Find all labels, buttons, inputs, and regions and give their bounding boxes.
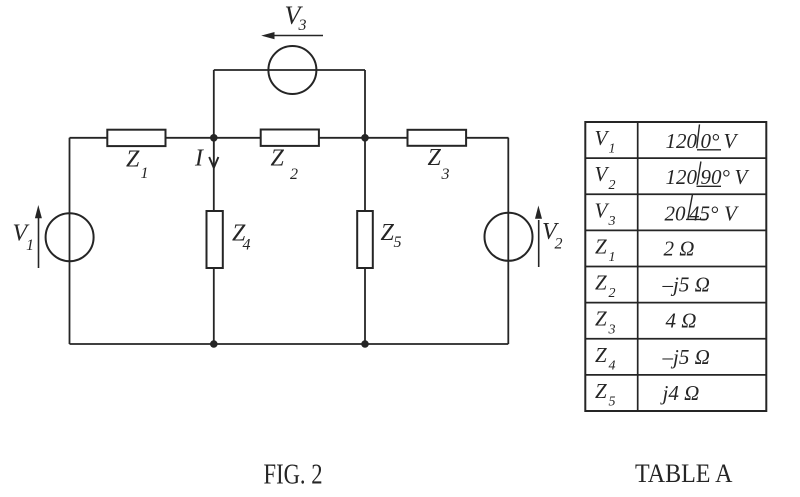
wire: Z4 down to bottom bus xyxy=(213,268,215,344)
node B junction dot xyxy=(361,134,369,142)
voltage source V3 xyxy=(268,46,316,94)
voltage source V1 xyxy=(46,213,94,261)
svg-text:5: 5 xyxy=(394,234,402,251)
label V1 xyxy=(13,220,35,254)
arrow: current I xyxy=(209,141,218,168)
svg-text:–j5 Ω: –j5 Ω xyxy=(662,273,710,297)
svg-text:2 Ω: 2 Ω xyxy=(664,237,695,261)
arrow: V3 reference direction xyxy=(261,32,323,39)
svg-text:Z: Z xyxy=(381,220,395,246)
table label V1 xyxy=(595,126,616,157)
svg-text:3: 3 xyxy=(608,214,616,229)
wire: top branch left vertical xyxy=(213,70,215,138)
svg-text:Z: Z xyxy=(595,235,607,259)
svg-text:j4 Ω: j4 Ω xyxy=(660,381,700,405)
wire: Z5 down to bottom bus xyxy=(364,268,366,344)
svg-text:1: 1 xyxy=(609,142,616,157)
svg-text:2: 2 xyxy=(609,286,616,301)
svg-text:45°: 45° xyxy=(689,201,719,225)
svg-text:Z: Z xyxy=(595,379,607,403)
svg-text:3: 3 xyxy=(441,166,450,183)
label V3 xyxy=(285,1,307,34)
label V2 xyxy=(542,219,563,253)
svg-text:1: 1 xyxy=(609,250,616,265)
svg-text:Z: Z xyxy=(428,145,442,171)
arrow: V1 reference direction xyxy=(35,205,42,268)
wire: main horizontal bus left of Z1 xyxy=(70,137,108,139)
svg-text:Z: Z xyxy=(271,146,285,172)
table label Z1 xyxy=(595,235,616,266)
svg-text:4 Ω: 4 Ω xyxy=(666,309,697,333)
svg-text:3: 3 xyxy=(298,17,307,34)
wire: bottom bus xyxy=(70,343,509,345)
arrow: V2 reference direction xyxy=(535,206,542,268)
svg-text:4: 4 xyxy=(243,237,251,254)
label Z5 xyxy=(381,220,402,251)
resistor Z5 xyxy=(357,211,373,268)
svg-text:Z: Z xyxy=(595,343,607,367)
svg-text:2: 2 xyxy=(609,178,616,193)
svg-text:120: 120 xyxy=(666,129,698,153)
svg-text:2: 2 xyxy=(555,236,563,253)
svg-text:20: 20 xyxy=(665,201,687,225)
svg-text:–j5 Ω: –j5 Ω xyxy=(662,345,710,369)
wire: node A down to Z4 xyxy=(213,138,215,211)
svg-text:1: 1 xyxy=(141,165,149,182)
svg-text:Z: Z xyxy=(595,307,607,331)
table label Z3 xyxy=(595,307,616,338)
svg-text:90°: 90° xyxy=(701,165,731,189)
svg-text:V: V xyxy=(595,198,610,222)
wire: Z2 to node B xyxy=(319,137,408,139)
resistor Z4 xyxy=(207,211,223,268)
resistor Z1 xyxy=(107,130,165,146)
svg-text:120: 120 xyxy=(666,165,698,189)
svg-text:I: I xyxy=(194,146,204,172)
table value V1: 120 angle 0 deg V xyxy=(666,124,739,153)
resistor Z3 xyxy=(408,130,467,146)
table label Z4 xyxy=(595,343,616,374)
table value V3: 20 angle 45 deg V xyxy=(665,194,740,225)
label Z1 xyxy=(126,146,149,182)
svg-text:V: V xyxy=(595,126,610,150)
table label V2 xyxy=(595,162,616,193)
wire: Z1 to node A xyxy=(166,137,261,139)
label Z3 xyxy=(428,145,450,183)
svg-text:V: V xyxy=(724,129,739,153)
wire: Z3 to right corner xyxy=(466,137,508,139)
label Z4 xyxy=(232,221,251,254)
voltage source V2 xyxy=(485,213,533,261)
table label Z2 xyxy=(595,271,616,302)
wire: top branch horizontal through V3 xyxy=(214,69,365,71)
label Z2 xyxy=(271,146,299,184)
table label Z5 xyxy=(595,379,616,410)
svg-text:Z: Z xyxy=(126,146,140,172)
wire: top branch right vertical xyxy=(364,70,366,138)
svg-text:3: 3 xyxy=(608,322,616,337)
svg-text:V: V xyxy=(735,165,750,189)
table label V3 xyxy=(595,198,616,229)
node C junction dot xyxy=(210,340,218,348)
wire: right branch vertical through V2 xyxy=(507,138,509,344)
svg-text:2: 2 xyxy=(290,166,298,183)
svg-text:V: V xyxy=(724,201,739,225)
table value V2: 120 angle 90 deg V xyxy=(666,162,750,190)
node A junction dot xyxy=(210,134,218,142)
svg-text:1: 1 xyxy=(26,237,34,254)
node D junction dot xyxy=(361,340,369,348)
table grid xyxy=(585,122,766,411)
svg-text:FIG. 2: FIG. 2 xyxy=(264,460,323,491)
svg-text:4: 4 xyxy=(609,358,616,373)
wire: left branch vertical through V1 xyxy=(69,138,71,344)
svg-text:5: 5 xyxy=(609,395,616,410)
svg-text:TABLE A: TABLE A xyxy=(635,459,733,488)
svg-text:Z: Z xyxy=(595,271,607,295)
resistor Z2 xyxy=(261,130,319,146)
wire: node B down to Z5 xyxy=(364,138,366,211)
svg-text:V: V xyxy=(595,162,610,186)
